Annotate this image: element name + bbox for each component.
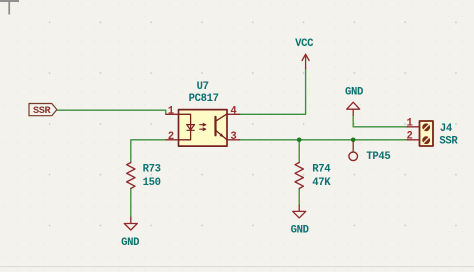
wire R73 bottom to GND [130, 189, 132, 218]
wire U7 pin2 to R73 top [131, 140, 166, 163]
LED bracket [179, 114, 191, 140]
resistor R73 [127, 163, 161, 190]
svg-text:R73: R73 [143, 163, 161, 175]
svg-text:SSR: SSR [439, 136, 458, 148]
resistor R74 [295, 163, 331, 190]
light arrow bottom [200, 128, 206, 130]
optocoupler U7 PC817 body [179, 110, 228, 147]
phototransistor base [214, 117, 216, 135]
wire R74 bottom to GND [298, 189, 300, 206]
sheet corner marker [0, 0, 19, 15]
svg-text:1: 1 [406, 117, 412, 129]
svg-text:1: 1 [168, 106, 174, 118]
pin 1 [166, 113, 179, 115]
svg-text:47K: 47K [312, 177, 331, 189]
svg-text:150: 150 [143, 177, 161, 189]
hierarchical label SSR [29, 104, 57, 117]
test point TP45 [349, 142, 391, 164]
svg-text:2: 2 [406, 131, 412, 143]
LED diode [187, 125, 195, 130]
svg-text:2: 2 [168, 131, 174, 143]
svg-text:SSR: SSR [33, 106, 52, 117]
power symbol GND (below R73) [121, 217, 139, 249]
junction at TP45 [351, 138, 356, 143]
light arrow top [200, 124, 206, 126]
svg-text:U7: U7 [197, 81, 209, 93]
wire R74 top [298, 140, 300, 163]
wire GND to J4 pin1 [353, 115, 407, 126]
wire U7 pin3 to J4 pin2 [240, 139, 407, 141]
svg-text:R74: R74 [312, 163, 331, 175]
connector J4 pin 1 [407, 126, 420, 128]
svg-text:3: 3 [230, 131, 236, 143]
connector J4 body [420, 121, 434, 146]
junction at R74 [297, 138, 302, 143]
pin 4 [227, 113, 240, 115]
pin 2 [166, 139, 179, 141]
wire U7 pin4 to VCC [240, 69, 306, 115]
power symbol GND (above J4) [345, 87, 363, 116]
wire SSR label to U7 pin1 [57, 110, 166, 114]
svg-text:TP45: TP45 [366, 151, 390, 163]
sheet bottom edge line [0, 266, 474, 267]
power symbol VCC [295, 38, 314, 69]
connector J4 pin 2 [407, 139, 420, 141]
screw terminal 2 [422, 136, 430, 144]
svg-text:GND: GND [345, 87, 363, 99]
svg-text:PC817: PC817 [189, 93, 219, 105]
svg-text:GND: GND [121, 237, 139, 249]
screw terminal 1 [422, 123, 430, 131]
svg-text:VCC: VCC [295, 38, 314, 50]
pin 3 [227, 139, 240, 141]
svg-text:GND: GND [291, 224, 309, 236]
svg-text:J4: J4 [440, 123, 453, 135]
power symbol GND (below R74) [291, 205, 309, 236]
emitter [216, 131, 227, 140]
svg-text:4: 4 [230, 106, 237, 118]
collector [216, 114, 227, 121]
